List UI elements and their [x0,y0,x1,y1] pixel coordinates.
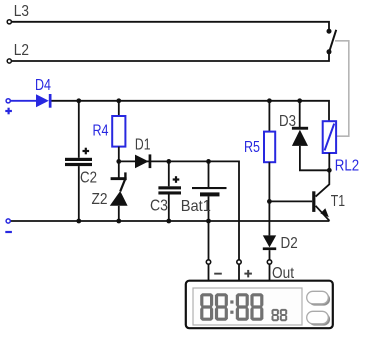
svg-text:L2: L2 [14,42,29,59]
terminal L3 [7,3,29,24]
node rail-C2 [76,219,81,224]
transistor T1 [312,170,345,221]
wire mid line to clock plus [119,161,239,259]
node collector-RL2-D3 [327,168,332,173]
node rail-Z2 [116,219,121,224]
svg-text:C2: C2 [80,170,97,187]
node bus-C2 [76,98,81,103]
mechanical link switch to RL2 [335,41,349,136]
node bus-R4 [116,98,121,103]
wire Bat1 to clock minus [208,221,210,260]
svg-text:Bat1: Bat1 [181,198,211,215]
svg-text:D3: D3 [279,113,296,130]
wire base of T1 [269,200,312,202]
switch S1 [327,29,337,55]
node R4-D1-Z2 [116,159,121,164]
wire L3 to switch [12,22,330,30]
resistor R5 [244,101,275,202]
clock button upper [307,291,330,305]
svg-text:R4: R4 [93,122,109,139]
wire main bus [52,101,330,121]
wire R5 to D2 [268,201,270,235]
clock button lower [307,311,330,325]
svg-text:RL2: RL2 [335,158,359,175]
zener Z2 [92,161,128,221]
terminal L2 [7,42,29,63]
clock terminal Out [267,260,294,282]
ground rail [8,220,329,222]
battery Bat1 [181,161,227,221]
diode D4 [35,77,52,108]
node Bat1 top [206,159,211,164]
node bus-D3 [297,98,302,103]
diode D1 [135,137,151,169]
terminal + (phase input) [5,99,12,115]
clock terminal plus [237,260,252,281]
capacitor C3 [150,161,181,221]
resistor R4 [93,101,126,162]
diode D3 [279,101,329,171]
relay coil RL2 [323,121,360,174]
node R5-base [267,199,272,204]
svg-text:D4: D4 [35,77,51,94]
wire terminal to D4 [10,100,36,102]
svg-text:C3: C3 [150,198,168,215]
node bus-R5 [267,98,272,103]
diode D2 [263,235,298,260]
svg-text:Z2: Z2 [92,191,108,208]
clock terminal minus [206,260,222,281]
clock module body [186,281,333,329]
wire L2 to switch [12,53,330,61]
terminal - (neutral) [5,219,12,233]
svg-text:T1: T1 [331,193,345,210]
svg-text:L3: L3 [14,3,29,20]
capacitor C2 [65,101,97,221]
node C3 top [166,159,171,164]
svg-text:D1: D1 [135,137,151,154]
svg-text:R5: R5 [244,139,260,156]
clock digits 88:88 [200,293,263,321]
svg-text:D2: D2 [281,235,298,252]
node rail-C3 [166,219,171,224]
node rail-Bat1 [206,219,211,224]
clock digits small 88 [272,309,288,321]
